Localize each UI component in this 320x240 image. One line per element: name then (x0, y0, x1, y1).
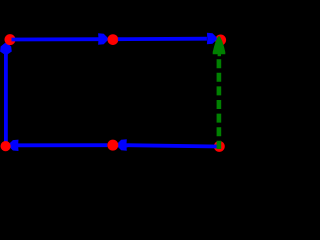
wire top-right segment (TM to TR) (118, 37, 207, 41)
node TM (108, 34, 119, 45)
arrowhead left at node BL (9, 140, 19, 151)
green stem below arrowhead (218, 54, 221, 56)
arrowhead up on left edge at node TL (0, 43, 12, 54)
arrowhead right at node TM (98, 33, 108, 44)
node BL (1, 141, 11, 151)
wire bottom-right segment (BR to BM) (126, 145, 218, 146)
node BR (214, 141, 225, 152)
wire left edge (BL to TL) (4, 50, 8, 146)
node TR (215, 35, 226, 46)
arrowhead left at node BM (117, 139, 127, 150)
node TL (5, 34, 16, 45)
node BM (107, 140, 118, 151)
arrowhead right at node TR (207, 33, 217, 44)
wire top-left segment (TL to TM) (12, 37, 100, 41)
wire bottom-left segment (BM to BL) (18, 143, 108, 147)
arrowhead up green at node TR (213, 36, 226, 54)
wire right edge green dashed (BR to TR) (217, 59, 222, 149)
